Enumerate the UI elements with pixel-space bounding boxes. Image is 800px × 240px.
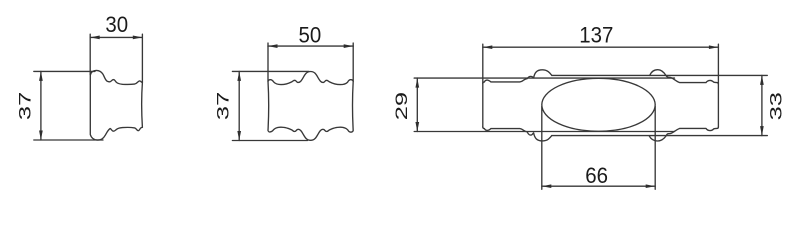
arrow 37M bottom	[237, 131, 241, 141]
left extension + left end edge	[482, 44, 484, 127]
label 33	[767, 92, 785, 120]
arrow 137 right	[709, 45, 719, 49]
arrow 50 right	[344, 44, 354, 48]
svg-text:37: 37	[214, 92, 232, 120]
29-level top line (ext + body edge)	[414, 77, 674, 79]
arrow 37L bottom	[39, 131, 43, 141]
right extension + right end edge	[717, 44, 719, 127]
dim 33 line	[761, 75, 763, 135]
cap bottom edge left part	[483, 127, 552, 141]
33-level top line (ext + raised edge)	[552, 74, 768, 76]
svg-text:66: 66	[585, 164, 608, 189]
arrow 29 bottom	[415, 122, 419, 132]
29-level bottom line (ext + body edge)	[414, 131, 674, 133]
arrow 30 left	[90, 36, 100, 40]
arrow 33 top	[760, 75, 764, 85]
top right bump + right cap top edge	[650, 70, 719, 84]
dim 30 extension line right	[141, 34, 143, 82]
svg-text:30: 30	[105, 12, 128, 37]
arrow 30 right	[133, 36, 143, 40]
dim 50 line	[268, 45, 353, 47]
arrow 66 left	[542, 184, 552, 188]
svg-text:137: 137	[579, 23, 613, 48]
arrow 37L top	[39, 71, 43, 81]
arrow 66 right	[646, 184, 656, 188]
svg-text:50: 50	[299, 23, 322, 48]
dim 37M extension bottom	[232, 140, 307, 142]
dim 37L line	[40, 71, 42, 140]
dim 37M line	[238, 71, 240, 140]
dim 37L extension bottom	[34, 139, 103, 141]
dim 37L extension top	[34, 70, 95, 72]
bottom right bump + right cap bottom edge	[649, 127, 718, 141]
center ellipse	[542, 78, 655, 131]
arrow 33 bottom	[760, 126, 764, 136]
33-level bottom line (ext + raised edge)	[552, 135, 768, 137]
dim 30 extension line left	[89, 34, 91, 74]
arrow 29 top	[415, 78, 419, 88]
svg-text:29: 29	[392, 92, 410, 120]
profile outline middle view	[268, 72, 353, 141]
svg-text:33: 33	[767, 92, 785, 120]
dim 66 extension left	[541, 107, 543, 190]
arrow 37M top	[237, 71, 241, 81]
dim 50 extension line left	[267, 43, 269, 81]
label 37 left	[16, 92, 34, 120]
dim 137 line	[483, 46, 719, 48]
arrow 50 left	[268, 44, 278, 48]
label 29	[392, 92, 410, 120]
dim 66 extension right	[654, 107, 656, 190]
dim 29 line	[416, 78, 418, 131]
svg-text:37: 37	[16, 92, 34, 120]
arrow 137 left	[483, 45, 493, 49]
dim 30 line	[90, 36, 142, 38]
dim 66 line	[542, 185, 655, 187]
label 37 middle	[214, 92, 232, 120]
dim 37M extension top	[232, 70, 309, 72]
profile outline left view	[90, 70, 142, 140]
dim 50 extension line right	[352, 43, 354, 81]
cap top edge left part	[483, 70, 552, 84]
